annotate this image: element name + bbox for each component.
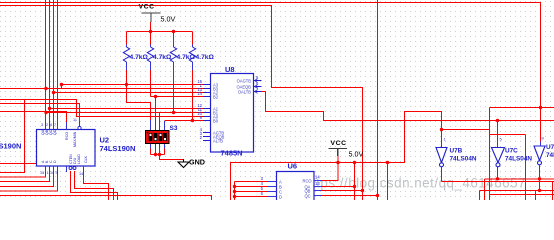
svg-text:74LS04N: 74LS04N	[505, 156, 532, 163]
svg-text:https://blog.csdn.net/qq_46146: https://blog.csdn.net/qq_46146657	[304, 176, 526, 191]
svg-text:U8: U8	[225, 65, 235, 74]
svg-text:9: 9	[56, 171, 58, 175]
svg-text:MAX/MIN: MAX/MIN	[73, 131, 77, 147]
svg-text:D: D	[279, 194, 282, 199]
svg-text:U7D: U7D	[546, 144, 554, 151]
svg-text:ALTB: ALTB	[213, 138, 223, 143]
svg-text:RCO: RCO	[303, 178, 312, 183]
svg-text:OAGTB: OAGTB	[237, 78, 252, 83]
svg-text:QC: QC	[305, 193, 311, 198]
svg-text:VCC: VCC	[331, 140, 347, 147]
svg-text:4.7kΩ: 4.7kΩ	[130, 54, 149, 61]
svg-text:1: 1	[47, 171, 49, 175]
svg-text:15: 15	[40, 171, 44, 175]
svg-text:B0: B0	[213, 118, 219, 123]
svg-text:4.7kΩ: 4.7kΩ	[196, 54, 215, 61]
svg-text:D: D	[53, 160, 57, 163]
svg-text:10: 10	[50, 171, 54, 175]
svg-text:14: 14	[197, 91, 202, 96]
svg-text:7485N: 7485N	[221, 149, 243, 158]
svg-text:14: 14	[315, 175, 320, 180]
svg-text:6: 6	[50, 123, 52, 127]
svg-text:S190N: S190N	[0, 142, 21, 151]
svg-text:5.0V: 5.0V	[161, 15, 176, 24]
svg-text:U6: U6	[288, 162, 298, 171]
svg-text:14: 14	[79, 172, 83, 176]
svg-text:7: 7	[54, 123, 56, 127]
svg-text:3: 3	[41, 123, 43, 127]
svg-text:74LS04N: 74LS04N	[450, 156, 477, 163]
svg-text:13: 13	[315, 181, 320, 186]
svg-text:S3: S3	[170, 125, 178, 132]
svg-text:QD: QD	[53, 129, 57, 135]
svg-text:LOAD: LOAD	[77, 154, 81, 164]
svg-text:4.7kΩ: 4.7kΩ	[153, 54, 172, 61]
svg-text:GND: GND	[189, 158, 205, 167]
svg-text:74LS04N: 74LS04N	[546, 152, 554, 159]
svg-text:5.0V: 5.0V	[349, 150, 364, 159]
svg-text:11: 11	[73, 118, 77, 122]
svg-text:4.7kΩ: 4.7kΩ	[177, 54, 196, 61]
svg-text:U7B: U7B	[450, 148, 463, 155]
svg-text:OALTB: OALTB	[238, 89, 251, 94]
svg-text:U7C: U7C	[505, 148, 518, 155]
svg-text:2: 2	[46, 123, 48, 127]
svg-text:74LS190N: 74LS190N	[100, 144, 136, 153]
svg-text:VCC: VCC	[139, 4, 155, 11]
svg-text:B2: B2	[213, 94, 219, 99]
svg-text:CLK: CLK	[84, 155, 88, 163]
svg-text:RCO: RCO	[65, 132, 69, 140]
